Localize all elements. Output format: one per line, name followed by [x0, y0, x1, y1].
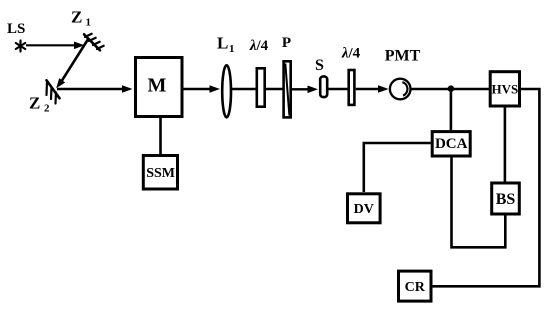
svg-text:DCA: DCA	[435, 136, 468, 152]
wire HVS to CR	[433, 89, 540, 286]
mirror Z1	[84, 34, 104, 51]
polarizer P	[284, 61, 291, 117]
beam Z1 to Z2 with arrow	[56, 39, 88, 89]
wire P to sample S with arrow	[292, 86, 318, 94]
svg-text:BS: BS	[496, 191, 516, 208]
wire M to lens with arrow	[184, 85, 221, 93]
mirror Z2	[47, 80, 60, 103]
svg-text:L: L	[217, 34, 228, 53]
svg-text:DV: DV	[354, 202, 374, 217]
label L1	[217, 34, 235, 56]
wire HVS to BS	[504, 108, 507, 182]
svg-text:Z: Z	[29, 94, 40, 113]
label Z1	[71, 8, 91, 29]
svg-text:S: S	[315, 57, 324, 74]
lens L1	[222, 65, 231, 117]
svg-text:LS: LS	[7, 21, 25, 37]
light source star	[16, 41, 25, 52]
svg-text:1: 1	[86, 17, 92, 29]
wire lens to quarter-wave plate 1	[232, 88, 256, 90]
svg-text:P: P	[282, 35, 291, 51]
wire M to SSM	[159, 118, 162, 155]
DV box	[348, 194, 381, 223]
svg-text:PMT: PMT	[385, 48, 421, 65]
wire junction to DCA	[450, 89, 453, 130]
wire plate 1 to polarizer P	[266, 88, 283, 90]
svg-text:HVS: HVS	[492, 81, 519, 96]
wire PMT to HVS	[411, 88, 489, 90]
svg-text:Z: Z	[71, 8, 82, 27]
svg-text:CR: CR	[405, 280, 426, 295]
quarter-wave plate 1	[257, 68, 265, 106]
svg-text:M: M	[148, 75, 167, 97]
wire Z2 to M with arrow	[57, 85, 133, 93]
sample S	[320, 76, 327, 97]
CR box	[399, 271, 432, 301]
svg-text:2: 2	[44, 103, 50, 115]
label Z2	[29, 94, 50, 115]
wire plate 2 to PMT with arrow	[356, 85, 389, 93]
wire S to quarter-wave plate 2	[329, 88, 349, 90]
quarter-wave plate 2	[349, 70, 355, 105]
svg-text:1: 1	[229, 43, 235, 55]
wire LS to Z1 with arrow	[26, 42, 85, 50]
SSM box	[143, 156, 177, 190]
svg-text:λ/4: λ/4	[341, 46, 361, 62]
photomultiplier PMT	[390, 79, 411, 100]
BS box	[492, 183, 520, 214]
wire DCA to BS bottom U	[452, 156, 506, 247]
junction node	[448, 85, 455, 92]
DCA box	[432, 132, 470, 156]
HVS box	[490, 72, 519, 106]
svg-text:λ/4: λ/4	[249, 38, 269, 54]
wire DCA to DV	[364, 143, 431, 192]
svg-text:SSM: SSM	[146, 166, 175, 181]
monochromator M box	[136, 58, 183, 117]
